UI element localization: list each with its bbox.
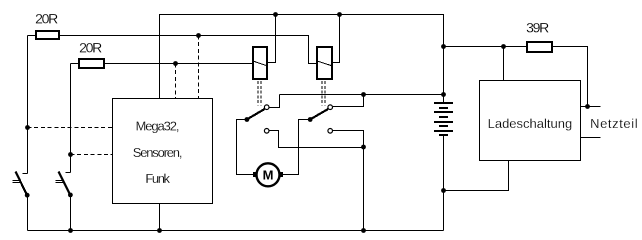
node NC rail junction [361,228,366,233]
wire dashed control R2 to Mega32 [175,64,177,99]
relay K2 coil [317,47,332,79]
node switch S2 control tap [68,152,73,157]
contact K2 NC terminal [328,129,333,134]
Ladeschaltung box [480,81,581,161]
wire Netzteil plus stub [581,106,601,108]
Mega32 box [113,99,213,204]
wire battery bottom [443,136,445,231]
wire dashed S2 to Mega32 [71,154,113,156]
switch S2 fixed contact foot [66,172,71,174]
svg-text:20R: 20R [79,39,102,55]
node R1 control tap [196,33,201,38]
wire 39R line left [444,46,528,48]
svg-text:Mega32,: Mega32, [136,118,179,133]
wire R1 output to relay K2 left pin [60,36,317,64]
wire R2 left [71,63,80,65]
wire Mega32 bottom to rail [159,204,161,231]
wire K2 NC to minus vertical [333,131,364,231]
svg-text:39R: 39R [526,20,549,36]
node 39R line tap [441,44,446,49]
contact K1 lever [247,109,265,119]
node Netzteil plus junction [585,104,590,109]
wire Ladeschaltung top feed [503,47,505,81]
motor M right terminal [280,172,283,177]
resistor R2 body [79,59,104,68]
svg-text:Netzteil: Netzteil [590,116,638,131]
wire S1 to rail [27,195,29,231]
resistor R3 body [527,42,552,52]
svg-text:Ladeschaltung: Ladeschaltung [488,116,573,131]
contact K2 lever [310,109,328,119]
svg-text:Sensoren,: Sensoren, [133,145,182,160]
wire contact K2 pivot to motor right [283,120,311,175]
wire R1 left [28,35,37,37]
node NC junction [361,145,366,150]
relay K1 coil [253,47,267,79]
wire R3 output to Netzteil [553,47,588,107]
node R2 control tap [173,61,178,66]
motor M body [257,163,280,186]
wire Netzteil minus stub [581,137,601,139]
node switch S1 control tap [25,125,30,130]
node contact K1 pivot [245,117,250,122]
resistor R1 body [36,31,59,39]
contact K1 NO terminal [264,105,269,110]
wire relay K2 right pin to rail [332,15,340,63]
wire battery to Ladeschaltung bottom [444,161,509,191]
switch S1 actuator ticks [13,181,21,183]
node switch S2 pivot [68,193,73,198]
wire contact K1 pivot to motor left [237,120,254,175]
node battery minus tap [441,188,446,193]
wire NO2 feed [333,95,364,107]
wire bottom rail (battery -) [28,230,444,232]
wire K1 NO to plus bus [269,95,280,108]
node relay K2 rail junction [337,12,342,17]
switch S2 actuator ticks [56,181,64,183]
switch S1 lever [16,172,28,196]
wire top rail (battery +) with Mega32 feed and battery drop [160,15,444,103]
node NO bus split [361,92,366,97]
svg-text:20R: 20R [35,11,58,27]
battery B1 cells [434,102,453,136]
node S2 rail junction [68,228,73,233]
svg-text:Funk: Funk [145,171,170,186]
svg-text:M: M [263,168,274,183]
wire NO plus bus [280,94,444,96]
contact K1 NC terminal [264,129,269,134]
wire S2 to rail [70,195,72,231]
mechanical link K1 (double dashed) [258,81,261,106]
switch S2 lever [59,172,71,195]
wire R2 output to relay K1 left pin [105,63,253,65]
contact K2 NO terminal [328,105,333,110]
wire dashed S1 to Mega32 [28,127,113,129]
motor M left terminal [253,172,256,177]
wire switch S1 top vertical [27,36,29,174]
wire dashed control R1 to Mega32 [198,36,200,99]
node Mega32 rail junction [157,228,162,233]
wire relay K1 right pin to rail [267,15,276,63]
switch S1 fixed contact foot [23,173,28,175]
mechanical link K2 (double dashed) [322,81,325,106]
node contact K2 pivot [308,117,313,122]
node battery plus junction [441,92,446,97]
node relay K1 rail junction [273,12,278,17]
node switch S1 pivot [25,193,30,198]
wire switch S2 top vertical [70,64,72,173]
wire K1 NC to minus vertical [269,131,364,148]
node Ladeschaltung top tap [501,44,506,49]
